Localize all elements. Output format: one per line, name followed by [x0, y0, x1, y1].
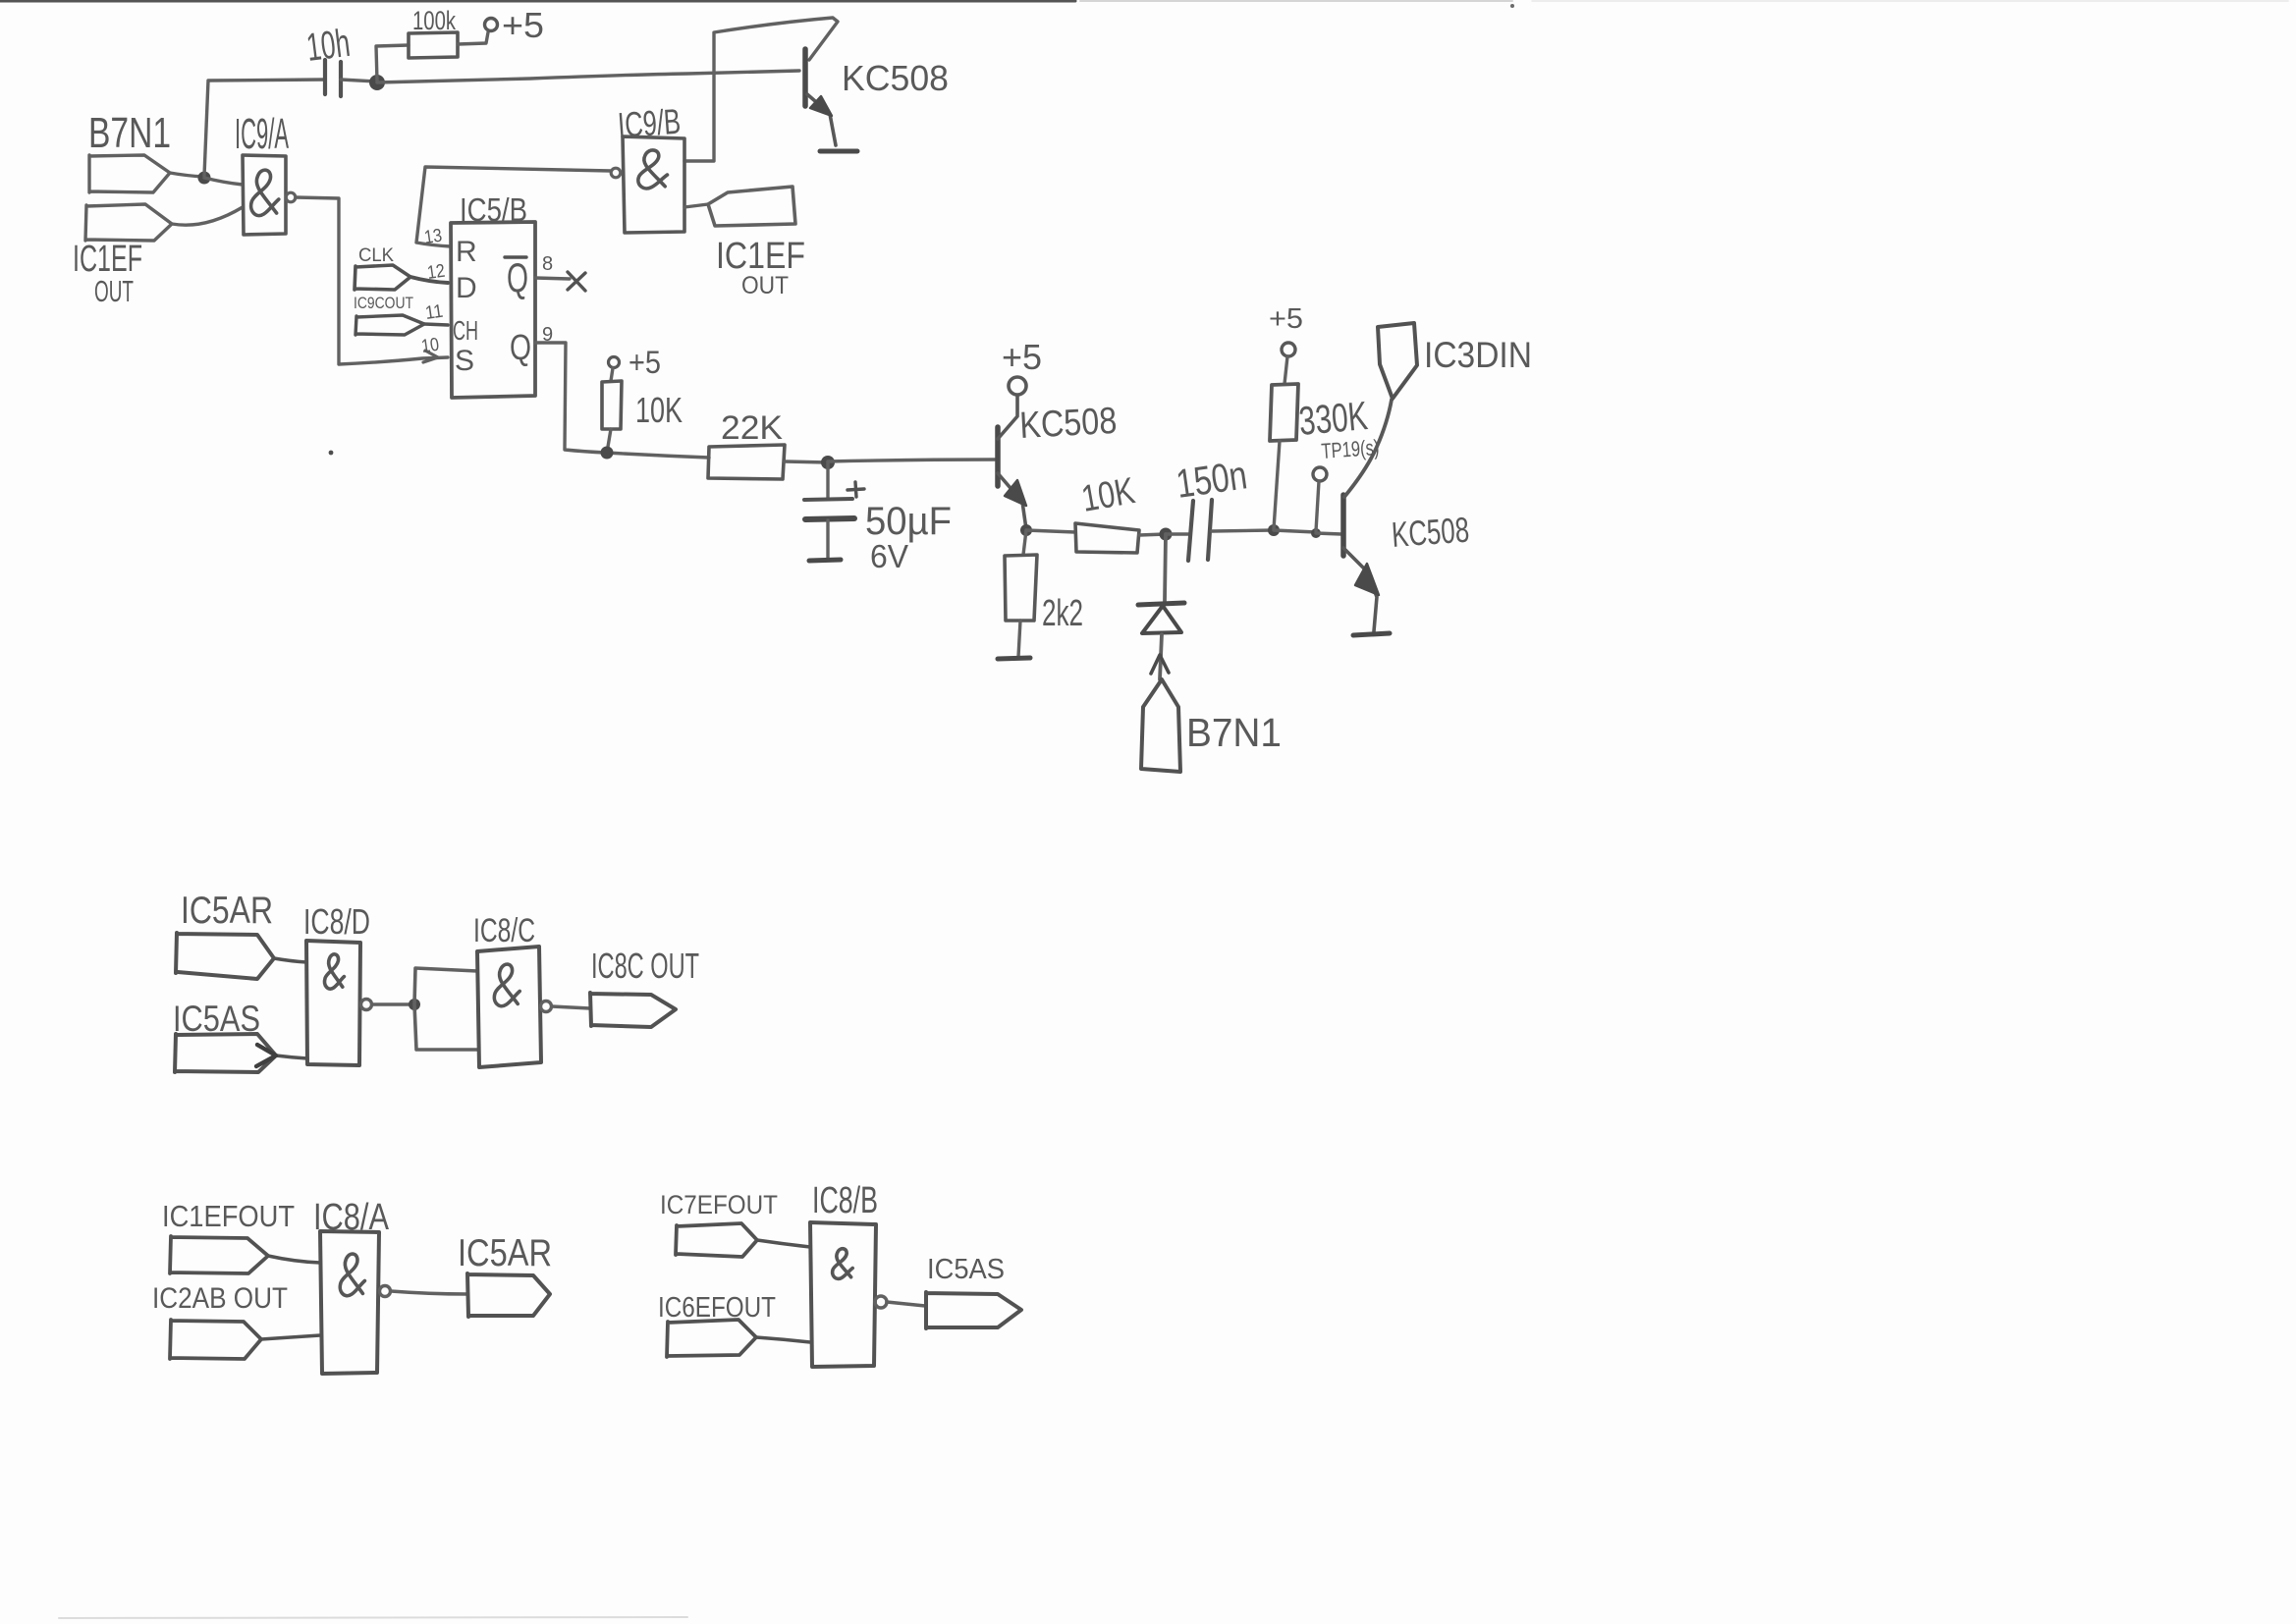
- arrowhead into S pin: [423, 351, 438, 362]
- svg-text:KC508: KC508: [1391, 510, 1471, 555]
- svg-text:50µF: 50µF: [865, 500, 952, 543]
- svg-text:11: 11: [424, 301, 445, 324]
- svg-text:8: 8: [542, 253, 553, 275]
- X no-connect mark: [568, 272, 585, 291]
- wire node B up to 100k: [376, 45, 409, 81]
- emitter Q2: [998, 473, 1026, 529]
- output bubble IC8/D: [361, 1000, 372, 1010]
- svg-text:+5: +5: [629, 345, 661, 380]
- wire IC1EF tag to IC9/A input 2: [172, 207, 243, 225]
- nand gate IC9/B: [623, 136, 684, 233]
- node D junction dot: [821, 456, 835, 469]
- wire node D to Q2 base: [828, 460, 995, 461]
- terminal +5 (330K): [1282, 343, 1295, 356]
- wire 150n to node G: [1212, 530, 1274, 531]
- svg-text:+5: +5: [1002, 337, 1042, 377]
- collector Q2: [998, 396, 1017, 439]
- svg-text:OUT: OUT: [741, 272, 789, 299]
- svg-text:OUT: OUT: [94, 274, 134, 308]
- ground 2k2: [998, 658, 1030, 659]
- arrowhead IC5AS: [256, 1045, 276, 1066]
- wire IC8/B to IC5AS tag: [887, 1302, 925, 1306]
- node E junction dot: [1020, 524, 1032, 536]
- svg-text:CLK: CLK: [358, 245, 394, 266]
- lead +5 to resistor: [611, 368, 613, 381]
- transistor Q1 emitter: [807, 94, 836, 145]
- nand gate IC8/B: [810, 1222, 876, 1367]
- svg-text:13: 13: [423, 226, 444, 248]
- paper speck 2: [1510, 4, 1514, 8]
- resistor 100k: [409, 32, 458, 58]
- wire IC5AR to IC8/D in1: [274, 958, 306, 962]
- svg-text:IC2AB OUT: IC2AB OUT: [152, 1282, 288, 1315]
- svg-text:IC8/C: IC8/C: [473, 912, 535, 949]
- svg-text:IC5AR: IC5AR: [181, 890, 273, 932]
- node H junction dot: [1311, 528, 1321, 538]
- output tag BTN1 bottom: [1141, 679, 1180, 772]
- svg-text:2k2: 2k2: [1042, 593, 1083, 634]
- wire 22K to node D: [785, 461, 828, 462]
- svg-text:IC7EFOUT: IC7EFOUT: [660, 1190, 778, 1219]
- output tag IC3DIN: [1378, 323, 1417, 399]
- wire 100k to +5: [458, 32, 488, 44]
- nand gate IC8/C: [477, 947, 541, 1067]
- emitter arrow Q2: [1005, 480, 1026, 506]
- lead plate2 to ground: [826, 520, 829, 560]
- wire IC8/C to IC8COUT tag: [552, 1006, 590, 1008]
- transistor Q2 base bar: [995, 427, 1001, 486]
- svg-text:IC1EF: IC1EF: [716, 236, 805, 277]
- wire IC8/D out to node I: [372, 1002, 413, 1006]
- svg-text:10h: 10h: [304, 22, 353, 70]
- wire node H to Q3 base: [1316, 533, 1341, 534]
- wire Q pin to lower rail: [535, 343, 709, 458]
- svg-text:IC8C OUT: IC8C OUT: [591, 946, 699, 986]
- resistor 10K vertical: [602, 381, 622, 429]
- flip-flop box IC5/B: [451, 222, 535, 398]
- terminal +5 top: [485, 19, 498, 31]
- wire node E to 10K: [1026, 530, 1075, 532]
- input tag IC2ABOUT: [170, 1320, 261, 1359]
- wire IC9/B out up-loop to collector: [684, 18, 838, 161]
- ground Q3: [1353, 633, 1390, 635]
- wire node A up and to capacitor: [204, 80, 325, 176]
- emitter Q3: [1343, 548, 1377, 631]
- transistor Q1 base bar: [802, 49, 808, 106]
- wire loop to IC8/C inputs: [414, 968, 478, 1050]
- scanner edge artifact top: [0, 0, 1075, 3]
- svg-text:+5: +5: [1269, 303, 1303, 335]
- input tag IC7EFOUT: [676, 1223, 757, 1257]
- svg-text:IC1EFOUT: IC1EFOUT: [162, 1199, 295, 1233]
- paper speck: [329, 451, 334, 456]
- svg-text:22K: 22K: [721, 409, 783, 447]
- emitter arrow Q3: [1355, 564, 1379, 595]
- input tag IC1EFOUT: [170, 1236, 268, 1273]
- resistor 330K: [1270, 384, 1298, 441]
- wire IC5AS to IC8/D in2: [276, 1056, 307, 1058]
- svg-text:R: R: [456, 236, 477, 268]
- svg-text:IC5/B: IC5/B: [460, 191, 527, 228]
- test point TP19 circle: [1313, 467, 1327, 481]
- capacitor C2 plate2: [805, 518, 854, 519]
- svg-text:IC9/A: IC9/A: [235, 110, 289, 158]
- wire node A to IC9/A input 1: [204, 178, 243, 185]
- plus sign: [847, 482, 864, 497]
- input tag IC5AR: [176, 933, 274, 979]
- output tag IC8COUT: [590, 993, 676, 1027]
- wire IC9/B input to R pin loop: [416, 167, 611, 246]
- output tag IC5AS: [926, 1292, 1021, 1328]
- input tag IC6EFOUT: [667, 1320, 756, 1357]
- output bubble IC8/A: [380, 1286, 391, 1297]
- lead 10K bottom to node C: [607, 429, 611, 453]
- lead 2k2 to ground: [1018, 621, 1020, 657]
- svg-text:100k: 100k: [412, 6, 456, 35]
- wire node B to transistor base (long): [377, 71, 799, 82]
- transistor Q3 base bar: [1340, 495, 1346, 556]
- svg-text:IC9COUT: IC9COUT: [354, 294, 413, 312]
- svg-text:B7N1: B7N1: [1186, 710, 1282, 755]
- nand gate IC8/D: [306, 941, 360, 1065]
- lead +5 to 330K: [1285, 356, 1287, 384]
- lead TP19 to node H: [1316, 481, 1319, 531]
- svg-text:Q: Q: [507, 254, 528, 300]
- node B junction dot: [369, 75, 385, 90]
- svg-text:12: 12: [426, 261, 447, 284]
- resistor 10K horizontal: [1075, 523, 1139, 553]
- svg-text:+5: +5: [502, 5, 544, 45]
- input tag IC1EF OUT: [85, 204, 172, 241]
- svg-text:D: D: [456, 272, 477, 304]
- diode cathode bar: [1138, 603, 1184, 605]
- lead 330K to node G: [1274, 441, 1280, 529]
- output bubble IC8/C: [541, 1001, 552, 1012]
- output tag IC5AR: [467, 1273, 550, 1317]
- capacitor C 10n: [325, 60, 341, 96]
- capacitor 150n: [1188, 500, 1212, 561]
- lead diode to BTN1 tag: [1160, 634, 1162, 679]
- wire IC6EFOUT to IC8/B in2: [756, 1337, 810, 1342]
- node I junction dot: [409, 999, 420, 1010]
- wire node F to 150n: [1166, 532, 1189, 535]
- capacitor C2 plate1: [804, 499, 852, 500]
- node C junction dot: [601, 447, 614, 460]
- wire capacitor to node B: [341, 80, 377, 81]
- svg-text:B7N1: B7N1: [88, 109, 171, 157]
- input tag IC5AS: [175, 1034, 276, 1072]
- wire BTN1 to node A: [170, 173, 203, 177]
- input tag BTN1: [89, 155, 170, 192]
- wire IC8/A to IC5AR tag: [391, 1291, 467, 1294]
- svg-text:S: S: [455, 345, 474, 377]
- wire IC9/A output to S loop: [296, 197, 448, 364]
- lead node F down to diode: [1165, 534, 1166, 601]
- svg-text:IC9/B: IC9/B: [617, 101, 683, 145]
- svg-text:IC3DIN: IC3DIN: [1424, 335, 1532, 375]
- wire 10K to node F: [1139, 534, 1166, 535]
- svg-text:KC508: KC508: [842, 58, 949, 98]
- wire IC7EFOUT to IC8/B in1: [757, 1240, 810, 1247]
- ground C2: [809, 560, 841, 561]
- terminal +5 (10K): [609, 357, 620, 368]
- wire CLK to D pin 12: [410, 277, 448, 283]
- resistor 22K: [708, 445, 785, 479]
- node G junction dot: [1268, 524, 1280, 536]
- svg-text:IC5AS: IC5AS: [927, 1254, 1005, 1285]
- capacitor C2 50uF lead: [826, 462, 829, 499]
- svg-text:IC5AR: IC5AR: [458, 1232, 552, 1274]
- svg-text:6V: 6V: [870, 538, 908, 574]
- scanner edge artifact bottom: [59, 1617, 687, 1618]
- svg-text:IC8/B: IC8/B: [812, 1180, 878, 1221]
- ground Q1: [820, 149, 857, 154]
- svg-text:10K: 10K: [635, 390, 683, 430]
- nand gate IC8/A: [320, 1231, 379, 1374]
- wire IC9COUT to CH pin 11: [424, 324, 448, 325]
- wire node G to node H: [1274, 530, 1316, 532]
- svg-text:Q: Q: [510, 327, 531, 367]
- output bubble IC9/A: [286, 192, 296, 202]
- input bubble IC9/B: [611, 168, 621, 178]
- arrow up on lead: [1151, 655, 1169, 674]
- svg-text:KC508: KC508: [1018, 401, 1118, 447]
- output tag IC1EF OUT (right): [684, 204, 708, 207]
- svg-text:IC8/D: IC8/D: [303, 901, 370, 942]
- svg-text:CH: CH: [453, 315, 478, 346]
- node A junction dot: [198, 172, 211, 185]
- collector Q3 to IC3DIN: [1344, 400, 1392, 497]
- svg-text:10: 10: [420, 335, 441, 357]
- terminal +5 (Q2): [1009, 377, 1026, 395]
- nand gate IC9/A: [243, 155, 286, 235]
- wire IC2ABOUT to IC8/A in2: [261, 1335, 320, 1339]
- node F junction dot: [1160, 528, 1173, 541]
- resistor 2k2: [1005, 555, 1037, 621]
- emitter arrow Q1: [810, 96, 832, 116]
- wire Qbar to X: [535, 278, 570, 279]
- lead node E to 2k2: [1023, 530, 1026, 555]
- diode triangle: [1142, 606, 1181, 633]
- output bubble IC8/B: [875, 1296, 887, 1308]
- wire IC1EFOUT to IC8/A in1: [268, 1256, 320, 1263]
